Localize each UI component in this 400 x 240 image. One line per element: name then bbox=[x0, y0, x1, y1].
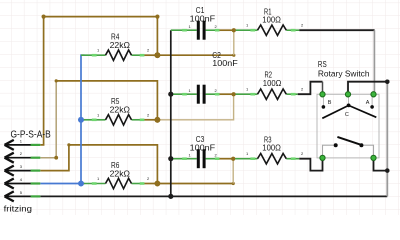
ratsnest link R5 junction to C2 right bbox=[157, 94, 233, 120]
ratsnest link C1 right to R4 row bbox=[233, 30, 235, 55]
wire R4 pin to junction bbox=[144, 54, 157, 56]
rotary switch body bbox=[317, 94, 379, 158]
svg-text:fritzing: fritzing bbox=[4, 204, 32, 213]
svg-text:100Ω: 100Ω bbox=[262, 16, 281, 25]
connector J1 arrow pin 3 bbox=[5, 164, 41, 176]
svg-text:22kΩ: 22kΩ bbox=[110, 169, 130, 178]
rotary switch bottom-left pin bbox=[320, 155, 325, 160]
wire cap left bus black bbox=[168, 30, 173, 199]
wire R1 output to switch pin A bbox=[299, 30, 374, 92]
rotary switch lower contacts bbox=[323, 145, 336, 156]
resistor R2 100Ω bbox=[234, 71, 304, 100]
svg-text:100nF: 100nF bbox=[190, 143, 216, 152]
connector J1 arrow pin 5 bbox=[5, 190, 41, 202]
svg-text:100Ω: 100Ω bbox=[263, 79, 282, 88]
capacitor C1 100nF bbox=[171, 6, 220, 40]
wire gray right-side vertical bbox=[385, 80, 389, 197]
junction dot R5 right node bbox=[155, 117, 161, 123]
capacitor C2 100nF bbox=[171, 51, 238, 103]
rotary switch pin A bbox=[371, 92, 376, 97]
wire net S: arrow3 to R6 junction loop bbox=[40, 143, 157, 183]
svg-text:A: A bbox=[366, 100, 370, 106]
wire R2 output to switch pin B bbox=[298, 82, 323, 95]
wire C3 pin to bend dot bbox=[219, 157, 235, 161]
wire net G: arrow1 to R4 junction loop bbox=[40, 15, 159, 145]
resistor R1 100Ω bbox=[234, 8, 304, 36]
capacitor C3 100nF bbox=[171, 135, 220, 168]
svg-text:100nF: 100nF bbox=[190, 14, 216, 23]
wire net A blue: arrow4 to resistor column bbox=[40, 55, 84, 186]
svg-text:B: B bbox=[328, 100, 332, 106]
wire R6 pin to junction bbox=[144, 183, 157, 185]
svg-text:22kΩ: 22kΩ bbox=[110, 106, 130, 115]
connector J1 arrow pin 4 bbox=[5, 177, 41, 189]
wire switch pin C stub to gray vertical bbox=[348, 82, 387, 92]
wire R4 row to C1 column bbox=[157, 54, 235, 57]
rotary switch contact dots bbox=[322, 105, 326, 109]
junction dots overlay bbox=[78, 28, 389, 199]
wire switch bottom-right pin to gray vertical bbox=[374, 159, 388, 171]
rotary switch RS bbox=[317, 59, 379, 161]
rotary switch pin C bbox=[345, 92, 350, 97]
resistor R6 22kΩ bbox=[81, 161, 150, 189]
wire C2 pin to bend dot bbox=[219, 92, 235, 96]
wire net B black: arrow5 ground rail bbox=[40, 195, 387, 197]
wire R5 pin to junction bbox=[144, 119, 157, 121]
resistor R3 100Ω bbox=[233, 135, 304, 164]
rotary switch wiper bbox=[347, 104, 351, 108]
svg-text:100Ω: 100Ω bbox=[262, 143, 281, 152]
connector J1 arrow pin 2 bbox=[5, 151, 41, 163]
rotary switch bottom-right pin bbox=[371, 155, 376, 160]
rotary switch contact stems bbox=[322, 96, 324, 107]
wire R6 row to C3 column bbox=[157, 182, 234, 185]
resistor R4 22kΩ bbox=[81, 33, 150, 61]
svg-text:G-P-S-A-B: G-P-S-A-B bbox=[11, 130, 52, 141]
connector J1 arrow pin 1 bbox=[5, 138, 41, 150]
wire R3 output to switch bottom-left pin bbox=[299, 159, 322, 171]
wire net P: arrow2 to R5 junction loop bbox=[40, 79, 157, 159]
junction dot R6 right node bbox=[155, 181, 161, 187]
svg-text:100nF: 100nF bbox=[212, 59, 238, 68]
junction dot R4 right node bbox=[155, 52, 161, 58]
svg-text:RS: RS bbox=[318, 59, 327, 69]
ratsnest link C3 right to R6 row bbox=[232, 159, 234, 184]
resistor R5 22kΩ bbox=[81, 97, 150, 125]
svg-text:22kΩ: 22kΩ bbox=[110, 41, 130, 50]
rotary switch pin B bbox=[320, 92, 325, 97]
svg-text:C: C bbox=[345, 112, 349, 118]
svg-text:Rotary Switch: Rotary Switch bbox=[318, 68, 370, 78]
wire C1 pin to bend dot bbox=[219, 28, 236, 32]
rotary switch lever bbox=[337, 137, 361, 145]
